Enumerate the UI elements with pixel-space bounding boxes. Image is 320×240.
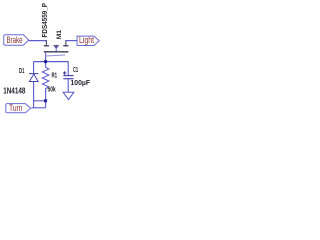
wire turn horizontal [32, 107, 46, 109]
svg-text:1N4148: 1N4148 [3, 86, 26, 95]
wire R1 bottom lead [45, 88, 47, 107]
resistor R1 [42, 67, 49, 88]
M1 left leg [45, 40, 47, 46]
ground [63, 92, 74, 99]
wire D1 top lead [33, 62, 35, 74]
svg-text:Turn: Turn [9, 103, 23, 113]
svg-text:Brake: Brake [7, 35, 23, 45]
port Brake [4, 35, 29, 45]
M1 bulk arrow [55, 48, 57, 52]
wire C1 top lead [67, 62, 69, 76]
transistor M1 [44, 40, 69, 52]
diode D1 [29, 74, 38, 82]
svg-text:FDS4559_P: FDS4559_P [40, 3, 49, 38]
M1 gate plate [44, 51, 69, 53]
wire D1 bottom lead [33, 82, 35, 101]
wire gate lead vertical [45, 52, 47, 68]
svg-text:Light: Light [79, 35, 94, 45]
svg-text:C1: C1 [73, 65, 79, 74]
svg-text:R1: R1 [52, 70, 58, 79]
wire gate stub horizontal [46, 55, 65, 56]
wire mid bus D1 to C1 [34, 61, 69, 63]
wire C1 bottom lead [67, 79, 69, 92]
M1 middle channel bar [54, 45, 59, 47]
wire bottom bus [34, 100, 46, 102]
port Light [77, 35, 99, 46]
wire M1 drain to Light [66, 40, 77, 42]
plus sign C1 [63, 71, 66, 74]
svg-text:M1: M1 [56, 30, 63, 40]
M1 right leg [65, 40, 67, 46]
svg-text:100µF: 100µF [71, 78, 91, 87]
junction dot gate node [44, 60, 47, 63]
junction dot bottom node [44, 99, 47, 102]
svg-text:D1: D1 [19, 66, 25, 75]
wire turn stub left vertical [33, 101, 35, 108]
port Turn [6, 103, 31, 113]
wire Brake to M1 source [29, 40, 47, 42]
M1 left channel bar [44, 45, 49, 47]
capacitor C1 [63, 76, 73, 79]
M1 right channel bar [63, 45, 68, 47]
svg-text:50k: 50k [48, 85, 57, 94]
